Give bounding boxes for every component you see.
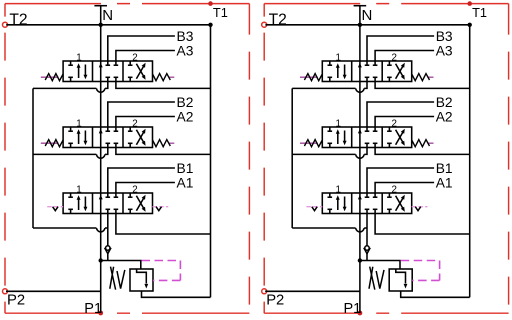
- port P2 circle (right): [262, 289, 267, 294]
- wire valve V1 outlet to check valve (left): [107, 209, 109, 246]
- port P1 dot (left): [98, 311, 103, 316]
- wire work port B3 riser (right): [367, 36, 434, 65]
- port T1 dot (left): [208, 1, 213, 6]
- wire left tank rail (left): [32, 88, 34, 228]
- relief valve RV1 arrow (left): [137, 269, 147, 284]
- valve V1 cell3 blocked ports (right): [388, 193, 390, 197]
- valve V2 cell1 down arrow (left): [84, 131, 86, 142]
- svg-text:B3: B3: [436, 29, 453, 44]
- wire valve V3 tank return left (left): [105, 77, 108, 88]
- valve V1 left detent line (left): [47, 206, 63, 208]
- port N plug cap (right): [354, 5, 367, 7]
- port N plug cap (left): [94, 5, 107, 7]
- svg-text:T2: T2: [9, 12, 27, 29]
- port P2 circle (left): [3, 289, 8, 294]
- valve V2 cell1 blocked ports (right): [329, 127, 331, 131]
- relief valve RV1 pilot line (left): [142, 260, 181, 262]
- valve V3 right spring (left): [153, 74, 171, 81]
- wire valve V3 tank return right (right): [375, 77, 470, 88]
- wire work port B2 riser (left): [108, 102, 175, 131]
- svg-text:B1: B1: [436, 161, 453, 176]
- valve V1 cell2 blocked stubs (left): [106, 196, 111, 198]
- svg-text:1: 1: [76, 118, 81, 129]
- wire left tank rail (right): [291, 88, 293, 228]
- valve V2 right spring (left): [153, 140, 171, 147]
- valve V2 envelope (right): [322, 127, 411, 148]
- wire P2 supply line (left): [6, 290, 101, 292]
- svg-text:2: 2: [132, 184, 137, 195]
- svg-text:A3: A3: [436, 43, 453, 58]
- wire open-center line N vertical (left): [100, 6, 102, 313]
- svg-text:B2: B2: [177, 95, 194, 110]
- valve V3 left spring (right): [304, 74, 322, 81]
- valve V2 cell2 blocked stubs (left): [106, 130, 111, 132]
- relief valve RV1 pilot line (right): [401, 260, 440, 262]
- valve V1 cell3 crossed arrows (left): [136, 198, 144, 211]
- valve V3 cell3 crossed arrows (left): [136, 66, 144, 79]
- valve V1 center open-center arrow (left): [99, 195, 103, 200]
- wire open-center line N vertical (right): [359, 6, 361, 313]
- wire left rail bottom link (right): [292, 227, 355, 229]
- valve V3 envelope (right): [322, 61, 411, 82]
- valve V3 right spring (right): [412, 74, 430, 81]
- port P1 dot (right): [358, 311, 363, 316]
- svg-text:B2: B2: [436, 95, 453, 110]
- wire work port A3 riser (right): [375, 51, 434, 66]
- node T1 junction (left): [208, 23, 212, 27]
- svg-text:A1: A1: [177, 175, 194, 190]
- valve V3 cell1 down arrow (right): [344, 65, 346, 76]
- valve V2 cell1 down arrow (right): [344, 131, 346, 142]
- valve V2 center open-center arrow (left): [99, 129, 103, 134]
- relief valve RV1 arrow (right): [396, 269, 406, 284]
- wire relief outlet to tank (right): [401, 291, 470, 297]
- valve V1 left detent line (right): [306, 206, 322, 208]
- relief valve RV1 body (right): [389, 269, 412, 291]
- svg-text:A3: A3: [177, 43, 194, 58]
- valve V1 right detent v (left): [156, 207, 161, 211]
- wire relief outlet to tank (left): [142, 291, 211, 297]
- wire tank top line T2-T1 (left): [6, 24, 210, 26]
- svg-text:2: 2: [391, 52, 396, 63]
- wire work port A2 riser (right): [375, 117, 434, 132]
- node N junction (left): [99, 23, 103, 27]
- valve V3 center open-center arrow (right): [358, 63, 362, 68]
- valve V3 left spring tail (left): [41, 76, 59, 78]
- svg-text:A2: A2: [177, 109, 194, 124]
- valve V1 right detent line (left): [153, 206, 169, 208]
- svg-text:2: 2: [132, 118, 137, 129]
- wire work port A2 riser (left): [116, 117, 175, 132]
- relief valve RV1 adjust arrow (right): [370, 267, 375, 290]
- svg-text:T1: T1: [213, 5, 228, 20]
- valve V3 left spring tail (right): [300, 76, 318, 78]
- valve V3 cell2 blocked stubs (left): [106, 64, 111, 66]
- valve V1 cell1 up arrow (left): [78, 200, 80, 211]
- valve V2 cell3 blocked ports (right): [388, 127, 390, 131]
- wire left rail bottom link (left): [33, 227, 96, 229]
- wire P2 supply line (right): [265, 290, 360, 292]
- svg-text:2: 2: [391, 118, 396, 129]
- svg-text:P1: P1: [344, 301, 362, 317]
- valve V2 cell1 up arrow (right): [337, 134, 339, 145]
- valve V3 cell1 blocked ports (right): [329, 61, 331, 65]
- relief valve RV1 body (left): [130, 269, 153, 291]
- valve V1 cell2 blocked stubs (right): [365, 196, 370, 198]
- check valve CV1 (left): [106, 246, 110, 250]
- valve V1 cell3 crossed arrows (right): [396, 198, 404, 211]
- wire work port B1 riser (left): [108, 168, 175, 197]
- wire relief inlet (left): [101, 261, 141, 270]
- svg-text:1: 1: [335, 52, 340, 63]
- valve V2 cell3 crossed arrows (left): [136, 132, 144, 145]
- relief valve RV1 adjust arrow (left): [111, 267, 116, 290]
- svg-text:1: 1: [76, 52, 81, 63]
- svg-text:N: N: [362, 7, 373, 24]
- valve V1 right detent line (right): [412, 206, 428, 208]
- valve V2 cell2 blocked stubs (right): [365, 130, 370, 132]
- valve V3 envelope (left): [63, 61, 152, 82]
- valve V1 cell1 blocked ports (left): [70, 193, 72, 197]
- valve V3 right spring tail (left): [169, 76, 175, 78]
- svg-text:B3: B3: [177, 29, 194, 44]
- svg-text:N: N: [102, 7, 113, 24]
- enclosure border (valve block boundary) (right): [264, 3, 508, 5]
- valve V2 right spring tail (right): [428, 142, 434, 144]
- valve V1 cell3 blocked ports (left): [129, 193, 131, 197]
- valve V3 center open-center arrow (left): [99, 63, 103, 68]
- valve V2 cell1 up arrow (left): [78, 134, 80, 145]
- valve V3 right spring tail (right): [428, 76, 434, 78]
- wire work port B2 riser (right): [367, 102, 434, 131]
- valve V3 cell3 blocked ports (left): [129, 61, 131, 65]
- valve V2 center open-center arrow (right): [358, 129, 362, 134]
- port T2 circle (left): [3, 22, 8, 27]
- valve V2 left spring tail (left): [41, 142, 59, 144]
- node pressure gallery junction (left): [99, 258, 103, 262]
- svg-text:P1: P1: [84, 301, 102, 317]
- wire valve V2 tank return right (right): [375, 143, 470, 154]
- valve V1 left detent v (right): [312, 207, 317, 211]
- valve V1 center open-center arrow (right): [358, 195, 362, 200]
- check valve CV1 (right): [365, 246, 369, 250]
- svg-text:T1: T1: [472, 5, 487, 20]
- svg-text:1: 1: [335, 118, 340, 129]
- svg-text:T2: T2: [269, 12, 287, 29]
- wire valve V2 tank return left (left): [105, 143, 108, 154]
- wire work port B3 riser (left): [108, 36, 175, 65]
- wire valve V2 tank return right (left): [116, 143, 211, 154]
- svg-text:1: 1: [76, 184, 81, 195]
- wire relief inlet (right): [360, 261, 400, 270]
- wire work port A1 riser (left): [116, 183, 175, 198]
- valve V2 cell3 crossed arrows (right): [396, 132, 404, 145]
- valve V1 right detent v (right): [415, 207, 420, 211]
- valve V3 cell1 blocked ports (left): [70, 61, 72, 65]
- valve V2 cell3 blocked ports (left): [129, 127, 131, 131]
- valve V2 left spring (right): [304, 140, 322, 147]
- relief valve RV1 spring (right): [369, 267, 373, 289]
- svg-text:1: 1: [335, 184, 340, 195]
- valve V1 cell1 blocked ports (right): [329, 193, 331, 197]
- wire right tank rail (left): [210, 25, 212, 298]
- relief valve RV1 spring (left): [110, 267, 114, 289]
- valve V3 cell1 up arrow (right): [337, 68, 339, 79]
- svg-text:P2: P2: [266, 292, 284, 308]
- node pressure gallery junction (right): [358, 258, 362, 262]
- enclosure border (valve block boundary) (left): [5, 3, 249, 5]
- wire valve V1 tank return right (right): [375, 209, 470, 234]
- wire valve V2 tank return left (right): [364, 143, 367, 154]
- valve V2 envelope (left): [63, 127, 152, 148]
- wire valve V1 outlet to check valve (right): [366, 209, 368, 246]
- valve V2 right spring tail (left): [169, 142, 175, 144]
- valve V3 cell1 up arrow (left): [78, 68, 80, 79]
- wire right tank rail (right): [469, 25, 471, 298]
- wire tank top line T2-T1 (right): [265, 24, 469, 26]
- svg-text:2: 2: [132, 52, 137, 63]
- wire valve V3 tank return left (right): [364, 77, 367, 88]
- wire work port B1 riser (right): [367, 168, 434, 197]
- wire work port A3 riser (left): [116, 51, 175, 66]
- svg-text:2: 2: [391, 184, 396, 195]
- wire work port A1 riser (right): [375, 183, 434, 198]
- valve V1 envelope (right): [322, 193, 411, 214]
- valve V3 left spring (left): [45, 74, 63, 81]
- valve V1 envelope (left): [63, 193, 152, 214]
- svg-text:P2: P2: [7, 292, 25, 308]
- valve V1 cell1 down arrow (right): [344, 197, 346, 208]
- valve V3 cell2 blocked stubs (right): [365, 64, 370, 66]
- valve V1 cell1 up arrow (right): [337, 200, 339, 211]
- valve V2 left spring (left): [45, 140, 63, 147]
- svg-text:B1: B1: [177, 161, 194, 176]
- valve V1 left detent v (left): [53, 207, 58, 211]
- valve V2 right spring (right): [412, 140, 430, 147]
- valve V1 cell1 down arrow (left): [84, 197, 86, 208]
- valve V2 left spring tail (right): [300, 142, 318, 144]
- port T1 dot (right): [467, 1, 472, 6]
- node T1 junction (right): [468, 23, 472, 27]
- wire valve V3 tank return right (left): [116, 77, 211, 88]
- wire valve V1 tank return right (left): [116, 209, 211, 234]
- port T2 circle (right): [262, 22, 267, 27]
- svg-text:A1: A1: [436, 175, 453, 190]
- valve V3 cell1 down arrow (left): [84, 65, 86, 76]
- valve V3 cell3 blocked ports (right): [388, 61, 390, 65]
- svg-text:A2: A2: [436, 109, 453, 124]
- node N junction (right): [358, 23, 362, 27]
- valve V2 cell1 blocked ports (left): [70, 127, 72, 131]
- valve V3 cell3 crossed arrows (right): [396, 66, 404, 79]
